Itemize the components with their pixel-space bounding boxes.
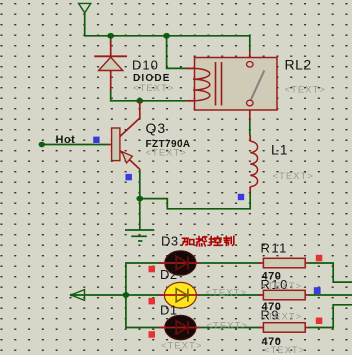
svg-text:RL2: RL2 [285,57,312,73]
svg-text:<TEXT>: <TEXT> [207,320,248,331]
svg-text:Hot: Hot [56,134,76,146]
svg-text:R11: R11 [261,240,288,255]
svg-text:D2: D2 [160,267,178,282]
svg-text:<TEXT>: <TEXT> [133,83,174,94]
svg-text:<TEXT>: <TEXT> [146,147,187,158]
svg-text:<TEXT>: <TEXT> [261,281,302,292]
svg-text:<TEXT>: <TEXT> [261,311,302,322]
svg-text:D3: D3 [161,233,179,248]
svg-text:<TEXT>: <TEXT> [206,288,247,299]
svg-text:D10: D10 [132,58,159,73]
svg-text:Q3: Q3 [146,120,167,136]
svg-text:L1: L1 [271,141,289,157]
svg-text:<TEXT>: <TEXT> [264,345,305,355]
svg-text:<TEXT>: <TEXT> [285,85,326,96]
svg-text:D1: D1 [160,302,178,317]
svg-text:<TEXT>: <TEXT> [161,341,202,352]
svg-text:<TEXT>: <TEXT> [273,171,314,182]
